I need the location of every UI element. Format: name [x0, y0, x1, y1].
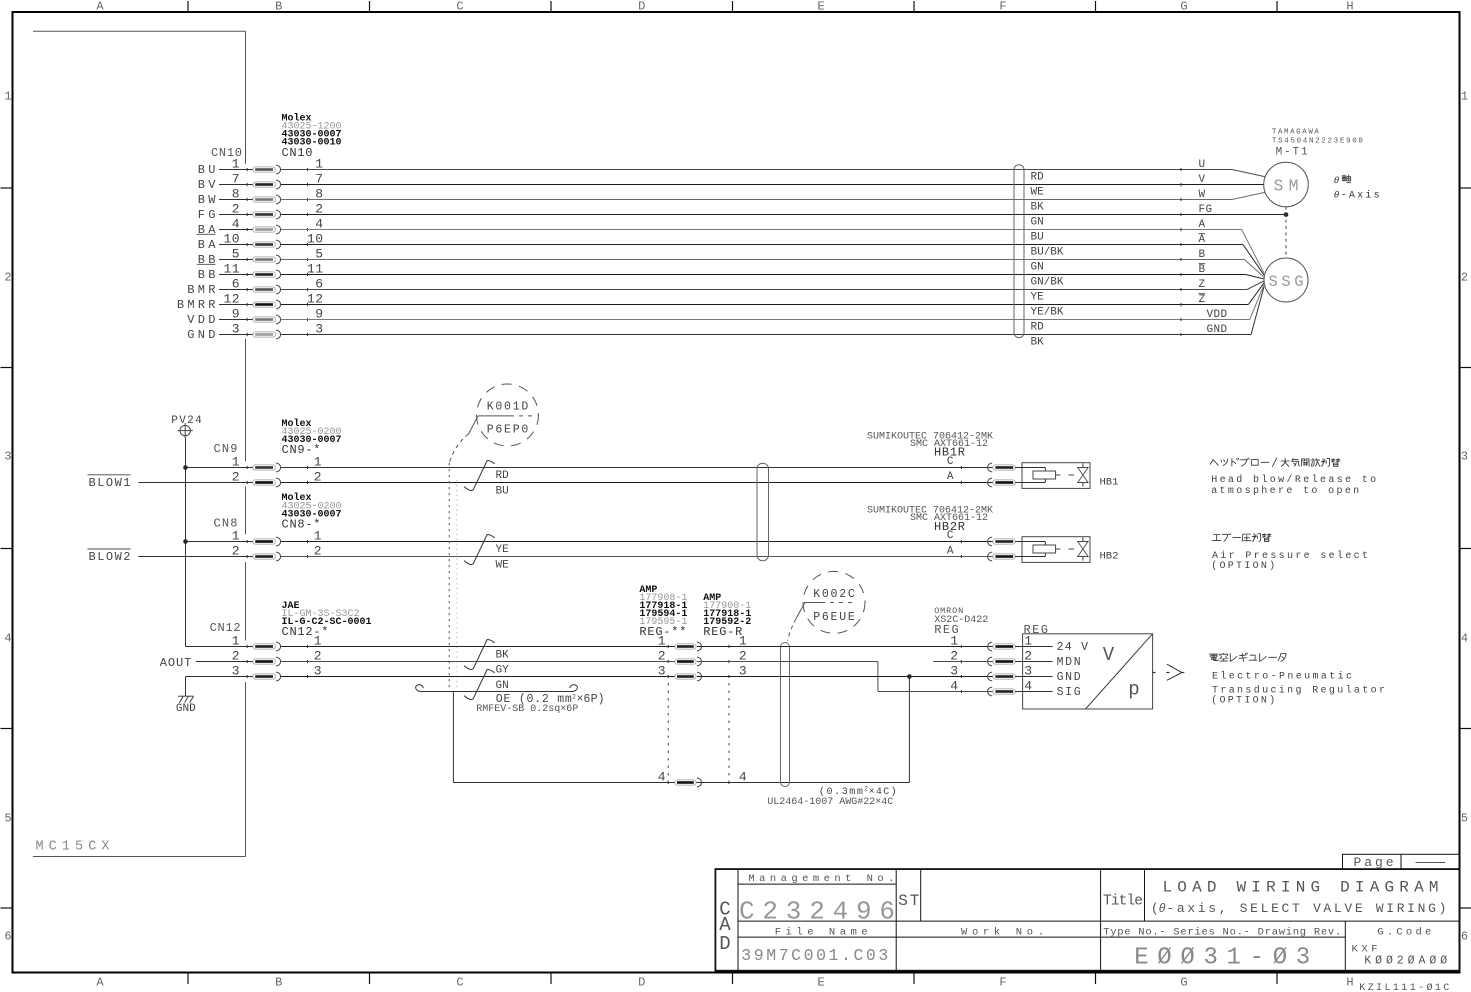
cable callout balloon K002C / P6EUE: [803, 571, 865, 633]
svg-text:BK: BK: [1031, 201, 1045, 213]
g-code KXF K0020A00: [1352, 944, 1448, 968]
CN10 pin 9 signal VDD: [187, 307, 323, 328]
svg-text:A: A: [1199, 234, 1206, 246]
svg-text:GND: GND: [176, 703, 196, 715]
wire CN10-5 stub: [219, 259, 253, 261]
svg-text:GND: GND: [1057, 671, 1081, 684]
wire CN8-1 to HB2 C: [281, 541, 993, 543]
wire CN10-3 stub: [219, 334, 253, 336]
motor terminal label A: [1199, 234, 1206, 246]
wire CN12-1 stub from PV24 bus: [186, 646, 254, 648]
wire CN12-3 GN to REG: [281, 676, 675, 678]
CN10 pin 10 signal BA (active-low): [197, 232, 323, 253]
solenoid valve HB1 body: [1015, 463, 1090, 489]
balloon K002C leader line: [788, 603, 806, 641]
wire CN10-12 stub: [219, 304, 253, 306]
svg-text:B: B: [275, 0, 282, 14]
wire CN10-11 stub: [219, 274, 253, 276]
motor terminal label A: [1199, 219, 1206, 231]
svg-text:YE: YE: [496, 544, 510, 556]
connector REG-** AMP part numbers: [639, 585, 687, 639]
svg-text:RD: RD: [1031, 321, 1045, 333]
svg-text:H: H: [1346, 976, 1353, 990]
svg-text:File Name: File Name: [775, 927, 868, 939]
svg-text:D: D: [638, 0, 645, 14]
motor terminal label Z: [1199, 279, 1206, 291]
pin contact REG-*-4: [668, 778, 729, 787]
regulator pin 1 contact: [961, 642, 1015, 651]
motor terminal label B: [1199, 249, 1206, 261]
wire CN10-6 stub: [219, 289, 253, 291]
HB1 terminal labels C A: [947, 456, 954, 483]
svg-text:θ: θ: [1334, 175, 1340, 186]
svg-text:4: 4: [658, 770, 666, 785]
wire BU / RD to motor U: [281, 168, 1265, 177]
pin contact CN12-1: [247, 642, 307, 651]
svg-text:Z: Z: [1199, 294, 1206, 306]
svg-text:HB2: HB2: [1100, 551, 1119, 563]
CN12 pin 1 numbers: [232, 634, 322, 649]
wire BB / GN to motor B: [281, 258, 1264, 277]
svg-text:A: A: [947, 545, 954, 557]
svg-text:GND: GND: [1207, 324, 1228, 336]
pin contact CN10-7: [247, 180, 307, 189]
wire CN12-2 GY to REG: [281, 661, 675, 663]
wire VDD / RD to motor VDD: [281, 285, 1264, 321]
svg-text:YE: YE: [1031, 291, 1045, 303]
motor terminal label W: [1199, 189, 1206, 201]
svg-text:4: 4: [1461, 632, 1468, 646]
pin contact CN12-3: [247, 672, 307, 681]
wire CN10-7 stub: [219, 184, 253, 186]
regulator pin 2 contact: [961, 657, 1015, 666]
svg-text:SIG: SIG: [1057, 686, 1081, 699]
svg-text:C: C: [947, 530, 954, 542]
pin contact CN10-12: [247, 300, 307, 309]
svg-text:U: U: [1199, 159, 1206, 171]
svg-text:TAMAGAWA: TAMAGAWA: [1272, 129, 1319, 137]
subtitle theta-axis SELECT VALVE WIRING: [1151, 901, 1447, 916]
wire PV24 bus vertical: [185, 438, 187, 646]
twist symbol YE/WE pair: [464, 535, 495, 565]
pin contact CN9-1: [247, 463, 307, 472]
svg-text:TS4504N2223E900: TS4504N2223E900: [1272, 137, 1363, 145]
CN10 pin 4 signal BA: [198, 217, 323, 238]
svg-text:RD: RD: [1031, 171, 1045, 183]
svg-text:V: V: [1199, 174, 1206, 186]
pin contact CN10-1: [247, 165, 307, 174]
svg-text:GND: GND: [187, 328, 215, 342]
svg-text:HB1: HB1: [1100, 477, 1119, 489]
svg-text:BU: BU: [1031, 231, 1044, 243]
wire CN8-1 stub from PV24 bus: [186, 541, 254, 543]
pin contact CN10-5: [247, 255, 307, 264]
wire spare conductor riser: [908, 677, 910, 783]
regulator cable sheath oval: [781, 643, 790, 787]
wire BA / BU/BK to motor A: [281, 243, 1264, 275]
cable label (0.3mm2 x 4C): [819, 786, 897, 799]
CN9 pin 2 numbers: [232, 470, 322, 485]
svg-text:H: H: [1346, 0, 1353, 14]
svg-text:A: A: [947, 471, 954, 483]
wire colour labels YE WE: [496, 544, 510, 572]
wire GND REG-3 to regulator: [697, 676, 993, 678]
wire colour labels RD BU: [496, 470, 510, 498]
wire AOUT to SIG routing: [697, 662, 993, 692]
REG-* pin 4 numbers: [658, 770, 747, 785]
CN8 pin 2 numbers: [232, 544, 322, 559]
CN10 pin 11 signal BB (active-low): [197, 262, 323, 283]
wire BW / BK to motor W: [281, 192, 1265, 201]
connector REG-R AMP part numbers: [703, 593, 751, 639]
connector CN9 Molex part numbers: [282, 418, 342, 457]
wire BLOW2 to CN8-2: [138, 556, 253, 558]
connector CN12 JAE part numbers: [282, 601, 372, 639]
label BLOW1 (active low): [88, 475, 131, 490]
svg-text:P6EP0: P6EP0: [487, 424, 529, 437]
svg-text:GN/BK: GN/BK: [1031, 276, 1064, 288]
svg-text:4: 4: [950, 679, 958, 694]
valve HB2 connector contacts: [961, 537, 1015, 546]
svg-text:C: C: [456, 0, 463, 14]
svg-text:VDD: VDD: [1207, 309, 1228, 321]
svg-text:UL2464-1007 AWG#22×4C: UL2464-1007 AWG#22×4C: [767, 797, 893, 808]
motor terminal label B: [1199, 264, 1206, 276]
svg-text:×6P): ×6P): [577, 693, 605, 706]
svg-text:5: 5: [4, 812, 11, 826]
spare conductors coiled line: [416, 685, 578, 692]
svg-text:A: A: [96, 976, 104, 990]
svg-text:B: B: [1199, 249, 1206, 261]
label theta axis kanji: [1342, 175, 1351, 183]
svg-text:BLOW2: BLOW2: [89, 550, 131, 564]
note Head blow/Release to atmosphere to open: [1211, 474, 1376, 497]
svg-text:-axis, SELECT VALVE WIRING): -axis, SELECT VALVE WIRING): [1166, 901, 1446, 916]
svg-text:3: 3: [658, 664, 666, 679]
svg-text:AOUT: AOUT: [160, 656, 192, 670]
svg-text:GN: GN: [496, 680, 509, 692]
svg-text:P6EUE: P6EUE: [813, 611, 855, 624]
svg-text:RMFEV-SB 0.2sq×6P: RMFEV-SB 0.2sq×6P: [476, 704, 578, 715]
CN10 pin 1 signal BU: [198, 157, 323, 178]
wire GND / BK to motor GND: [281, 287, 1264, 336]
wire CN10-1 stub: [219, 169, 253, 171]
svg-text:2: 2: [1461, 271, 1468, 285]
encoder SSG circle: [1264, 258, 1308, 302]
note electro-pneumatic regulator Japanese: [1210, 654, 1219, 661]
svg-text:YE/BK: YE/BK: [1031, 306, 1064, 318]
twist symbol GN/spare pair: [464, 670, 495, 700]
dashed link SM to SSG: [1285, 207, 1287, 258]
wire CN8-2 to HB2 A: [281, 556, 993, 558]
svg-text:1: 1: [4, 90, 11, 104]
connector CN8 Molex part numbers: [282, 492, 342, 531]
motor SM circle U1: [1264, 162, 1309, 207]
svg-text:GN: GN: [1031, 216, 1044, 228]
motor terminal label U: [1199, 159, 1206, 171]
label theta-Axis roman: [1334, 190, 1380, 202]
REG-* pin 1 numbers: [658, 634, 747, 649]
svg-text:B: B: [1199, 264, 1206, 276]
regulator pin 3 numbers and label GND: [950, 664, 1081, 684]
svg-text:A: A: [96, 0, 104, 14]
pin contact REG-*-1: [668, 642, 729, 651]
cable label OE (0.2 mm2 x 6P): [496, 693, 605, 706]
svg-text:1: 1: [950, 634, 958, 649]
wire MDN stub: [933, 661, 993, 663]
title block outline: [715, 869, 1459, 971]
pin contact REG-*-3: [668, 672, 729, 681]
power PV24 symbol: [171, 415, 202, 438]
CN9 pin 1 numbers: [232, 455, 322, 470]
twist symbol BK/GY pair: [464, 640, 495, 670]
wire CN10-2 stub: [219, 214, 253, 216]
svg-text:θ: θ: [1159, 902, 1166, 916]
wire CN10-8 stub: [219, 199, 253, 201]
pin contact CN10-4: [247, 225, 307, 234]
note Air Pressure select (OPTION): [1211, 550, 1368, 572]
regulator pin 4 contact: [961, 687, 1015, 696]
wire AOUT to CN12-2: [196, 661, 253, 663]
wire CN9-1 stub from PV24 bus: [186, 467, 254, 469]
svg-text:θ: θ: [1334, 190, 1340, 201]
svg-text:1: 1: [658, 634, 666, 649]
regulator OMRON XS2C-D422 part numbers: [934, 606, 988, 637]
svg-text:REG-R: REG-R: [703, 625, 742, 639]
valve HB2 part numbers SUMIKOUTEC/SMC: [867, 506, 993, 534]
svg-text:BU/BK: BU/BK: [1031, 246, 1064, 258]
wire BA / BU to motor A: [281, 228, 1264, 273]
svg-text:Z: Z: [1199, 279, 1206, 291]
wire spare conductor drop: [453, 692, 909, 783]
pin contact CN8-2: [247, 552, 307, 561]
svg-text:Type No.- Series No.- Drawing: Type No.- Series No.- Drawing Rev.: [1103, 927, 1341, 939]
svg-text:3: 3: [950, 664, 958, 679]
svg-text:M-T1: M-T1: [1276, 147, 1308, 159]
pin contact CN10-10: [247, 240, 307, 249]
svg-text:E: E: [817, 976, 824, 990]
svg-text:E: E: [817, 0, 824, 14]
svg-text:ST: ST: [898, 892, 919, 910]
svg-text:Title: Title: [1103, 893, 1143, 909]
svg-text:F: F: [999, 976, 1006, 990]
pin contact CN9-2: [247, 478, 307, 487]
regulator pin 3 contact: [961, 672, 1015, 681]
motor terminal label V: [1199, 174, 1206, 186]
svg-text:WE: WE: [496, 560, 510, 572]
wire BLOW1 to CN9-2: [138, 482, 253, 484]
svg-text:BMR: BMR: [187, 283, 215, 297]
motor cable sheath oval: [1014, 165, 1024, 338]
twist symbol RD/BU pair: [464, 461, 495, 491]
svg-text:SSG: SSG: [1269, 273, 1304, 291]
HB2 terminal labels C A: [947, 530, 954, 557]
connector body dashed continuation: [668, 683, 729, 782]
svg-text:A: A: [1199, 219, 1206, 231]
pin contact CN10-6: [247, 285, 307, 294]
svg-text:MDN: MDN: [1057, 656, 1081, 669]
svg-text:G: G: [1180, 0, 1187, 14]
label theta axis: [1334, 175, 1340, 186]
page number box: [1343, 854, 1460, 870]
note air pressure Japanese: [1212, 535, 1220, 541]
pin contact CN12-2: [247, 657, 307, 666]
CN8 pin 1 numbers: [232, 529, 322, 544]
svg-text:CN10: CN10: [282, 146, 313, 160]
wire 24V REG-1 to regulator: [697, 646, 993, 648]
svg-text:p: p: [1128, 679, 1139, 701]
svg-text:2: 2: [4, 271, 11, 285]
svg-text:4: 4: [739, 770, 747, 785]
svg-text:KZIL111-Ø1C: KZIL111-Ø1C: [1359, 982, 1449, 992]
svg-text:24 V: 24 V: [1057, 641, 1088, 654]
CN10 pin 3 signal GND: [187, 322, 323, 343]
svg-text:G: G: [1180, 976, 1187, 990]
svg-text:C: C: [947, 456, 954, 468]
svg-text:V: V: [1103, 644, 1115, 666]
svg-text:6: 6: [1461, 930, 1468, 944]
motor nameplate TAMAGAWA TS4504N2223E900 M-T1: [1272, 129, 1363, 159]
CN10 pin 8 signal BW: [198, 187, 323, 208]
svg-text:6: 6: [4, 930, 11, 944]
svg-text:BK: BK: [1031, 336, 1045, 348]
pin contact CN10-11: [247, 270, 307, 279]
svg-text:C232496: C232496: [739, 897, 895, 927]
pin contact CN10-2: [247, 210, 307, 219]
wire BV / WE to motor V: [281, 183, 1264, 186]
svg-text:-Axis: -Axis: [1341, 190, 1380, 202]
ground chassis symbol: [178, 696, 194, 703]
svg-text:Electro-Pneumatic: Electro-Pneumatic: [1212, 670, 1352, 682]
pin contact CN10-9: [247, 315, 307, 324]
CN10 pin 5 signal BB: [198, 247, 323, 268]
CN10 pin 7 signal BV: [198, 172, 323, 193]
balloon K001D leader line: [449, 416, 478, 692]
pin contact CN8-1: [247, 537, 307, 546]
wire CN10-9 stub: [219, 319, 253, 321]
wire BMR / YE to motor Z: [281, 281, 1264, 291]
pin contact REG-*-2: [668, 657, 729, 666]
motor terminal label GND: [1207, 324, 1228, 336]
svg-text:WE: WE: [1031, 186, 1045, 198]
wire colour labels BK GY GN: [496, 650, 510, 692]
wire CN10-10 stub: [219, 244, 253, 246]
svg-text:3: 3: [1461, 450, 1468, 464]
solenoid valve HB2 body: [1015, 537, 1090, 563]
CN10 pin 12 signal BMRR: [177, 292, 323, 313]
CN12 pin 3 numbers: [232, 664, 322, 679]
svg-text:VDD: VDD: [187, 313, 215, 327]
CN10 pin 2 signal FG: [198, 202, 323, 223]
node junction GND/spare: [907, 674, 912, 679]
regulator pin 1 numbers and label 24 V: [950, 634, 1088, 654]
REG-* pin 3 numbers: [658, 664, 747, 679]
valve cable sheath oval: [757, 463, 769, 561]
node junction CN9-1: [183, 465, 188, 470]
svg-text:BLOW1: BLOW1: [89, 476, 131, 490]
svg-text:4: 4: [4, 632, 11, 646]
electro-pneumatic regulator box V/p: [1023, 634, 1153, 709]
wire CN9-2 to HB1 A: [281, 482, 993, 484]
svg-text:C: C: [456, 976, 463, 990]
valve HB1 connector contacts: [961, 463, 1015, 472]
pneumatic output dashed arrow: [1152, 664, 1184, 680]
regulator pin 4 numbers and label SIG: [950, 679, 1081, 699]
svg-text:RD: RD: [496, 470, 510, 482]
motor terminal label Z: [1199, 294, 1206, 306]
wire CN12-3 to ground: [186, 677, 254, 697]
connector CN10 Molex part numbers: [282, 113, 342, 161]
CN10 pin 6 signal BMR: [187, 277, 323, 298]
wire CN10-4 stub: [219, 229, 253, 231]
pin contact CN10-8: [247, 195, 307, 204]
svg-text:B: B: [275, 976, 282, 990]
wire BMRR / YE/BK to motor Z: [281, 283, 1264, 306]
pin contact CN10-3: [247, 330, 307, 339]
motor terminal label FG: [1199, 204, 1213, 216]
valve HB1 part numbers SUMIKOUTEC/SMC: [867, 431, 993, 459]
svg-text:W: W: [1199, 189, 1206, 201]
svg-text:2: 2: [658, 649, 666, 664]
note head blow Japanese: [1210, 460, 1218, 466]
wire BB / GN/BK to motor B: [281, 273, 1264, 279]
svg-text:K002C: K002C: [813, 588, 855, 601]
svg-text:2: 2: [950, 649, 958, 664]
controller MC15CX box outline: [33, 31, 246, 856]
REG-* pin 2 numbers: [658, 649, 747, 664]
svg-text:5: 5: [1461, 812, 1468, 826]
wire CN9-1 to HB1 C: [281, 467, 993, 469]
svg-text:GY: GY: [496, 665, 510, 677]
svg-text:BU: BU: [496, 485, 509, 497]
node FG junction dot: [1284, 212, 1289, 217]
wire CN12-1 BK to REG: [281, 646, 675, 648]
svg-text:1: 1: [1461, 90, 1468, 104]
svg-text:GN: GN: [1031, 261, 1044, 273]
svg-text:D: D: [638, 976, 645, 990]
wire FG / GN to motor FG: [281, 213, 1286, 216]
svg-text:D: D: [719, 933, 730, 955]
node junction CN8-1: [183, 539, 188, 544]
svg-text:BK: BK: [496, 650, 510, 662]
svg-text:F: F: [999, 0, 1006, 14]
svg-text:FG: FG: [1199, 204, 1213, 216]
regulator pin 2 numbers and label MDN: [950, 649, 1080, 669]
svg-text:K001D: K001D: [487, 401, 529, 414]
svg-text:3: 3: [4, 450, 11, 464]
CN12 pin 2 numbers: [232, 649, 322, 664]
cable callout balloon K001D / P6EP0: [477, 384, 539, 446]
label BLOW2 (active low): [88, 549, 131, 564]
note Electro-Pneumatic Transducing Regulator (OPTION): [1211, 670, 1385, 706]
label CAD: [719, 899, 731, 955]
motor terminal label VDD: [1207, 309, 1228, 321]
